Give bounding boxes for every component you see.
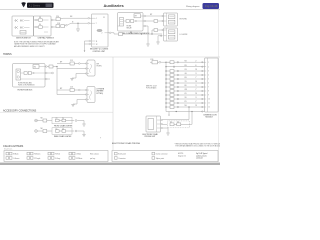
svg-text:Wiring diagram: Wiring diagram — [186, 6, 200, 8]
ladder bottom wires — [166, 107, 205, 115]
ladder row 7 — [165, 85, 204, 88]
ERP note — [174, 143, 221, 148]
ladder row 11 — [165, 101, 204, 104]
module output wire — [108, 32, 119, 34]
svg-text:P Purple: P Purple — [34, 158, 40, 160]
svg-text:C16: C16 — [70, 87, 73, 89]
svg-text:BS: BS — [185, 85, 187, 87]
ERP wire pin2 with connectors — [162, 112, 192, 128]
legend right caption — [178, 153, 208, 159]
right page border — [218, 10, 220, 162]
svg-text:C5: C5 — [56, 128, 58, 130]
svg-text:C4: C4 — [62, 118, 64, 120]
ladder row 9 — [165, 93, 204, 96]
svg-text:CENTRAL FUSEBOX: CENTRAL FUSEBOX — [38, 37, 55, 40]
ladder side note — [146, 86, 157, 90]
svg-text:R2: R2 — [34, 66, 36, 68]
svg-text:11: 11 — [196, 93, 198, 95]
ignition switch box S1 — [12, 16, 34, 36]
svg-text:CONTROL UNIT: CONTROL UNIT — [93, 51, 106, 53]
svg-text:Fig 13.48: Fig 13.48 — [205, 4, 218, 8]
door module label — [204, 114, 218, 118]
column divider — [112, 57, 114, 150]
svg-text:RS: RS — [185, 77, 187, 79]
svg-text:SS: SS — [185, 97, 187, 99]
wire from module to LO horn — [118, 29, 163, 37]
wire row2 feed — [51, 21, 92, 28]
svg-text:4: 4 — [96, 18, 97, 20]
svg-text:PS: PS — [185, 101, 187, 103]
ladder row 5 — [165, 77, 204, 80]
legend entry c1r2 — [6, 157, 19, 160]
header jaguar logo — [22, 2, 26, 7]
relay output wire top — [45, 65, 58, 68]
svg-text:R7: R7 — [135, 16, 137, 18]
svg-text:11: 11 — [96, 41, 98, 43]
horn feed wire1 — [143, 14, 163, 17]
RH horn feed wires — [57, 60, 87, 69]
svg-text:11: 11 — [196, 69, 198, 71]
LH horn feed wires — [57, 87, 87, 96]
header fig badge — [203, 3, 220, 9]
svg-text:NS: NS — [185, 105, 187, 107]
bottom page band — [0, 163, 220, 165]
svg-text:C3: C3 — [56, 118, 58, 120]
engine fusebox box F2 — [118, 13, 144, 32]
header rule — [0, 9, 220, 11]
svg-text:FUSE 23 IN FUSEBOX: FUSE 23 IN FUSEBOX — [18, 85, 35, 87]
svg-text:Fig 13.48 Typical: Fig 13.48 Typical — [196, 153, 208, 155]
svg-text:BP: BP — [60, 62, 62, 64]
svg-text:2: 2 — [102, 33, 103, 35]
RH horn label — [97, 64, 103, 68]
svg-text:Auxiliaries: Auxiliaries — [104, 3, 125, 8]
wire color labels horns — [60, 62, 62, 91]
legend entry c3r2 — [48, 157, 60, 160]
svg-text:U Blue: U Blue — [76, 154, 81, 156]
legend left box — [4, 151, 108, 162]
svg-text:C2: C2 — [177, 121, 179, 123]
ERP wire pin1 — [162, 106, 189, 119]
RH horn ground — [70, 73, 87, 81]
section divider horns — [0, 56, 220, 58]
ladder row 1 — [166, 60, 205, 63]
ERP unit box U3 — [146, 116, 162, 132]
svg-text:F8: F8 — [39, 17, 41, 19]
horn feed wire2 — [143, 20, 163, 23]
svg-text:C1: C1 — [103, 17, 105, 19]
ERP ground G3 — [162, 128, 169, 135]
svg-text:MODULE: MODULE — [206, 117, 214, 119]
horn HI box H1 — [162, 13, 178, 26]
svg-text:G Green: G Green — [13, 158, 19, 160]
relay stub bottom — [45, 78, 50, 80]
LH horn label — [97, 89, 105, 95]
svg-text:NK: NK — [41, 128, 43, 130]
svg-text:Wire colours: Wire colours — [90, 154, 99, 156]
ground G2 — [156, 36, 160, 44]
svg-text:HORN: HORN — [97, 66, 103, 68]
ladder row 8 — [165, 89, 204, 92]
accessory row1 — [35, 117, 86, 126]
svg-text:YS: YS — [185, 81, 187, 83]
wire row1 feed — [51, 16, 92, 21]
svg-text:PRICING UNIT: PRICING UNIT — [145, 136, 156, 138]
svg-text:C6: C6 — [62, 128, 64, 130]
svg-text:10: 10 — [208, 99, 210, 101]
module label — [90, 49, 109, 53]
legend entry c2r2 — [27, 157, 40, 160]
svg-text:12: 12 — [208, 107, 210, 109]
horn wire3 to ground — [143, 25, 150, 46]
relay stub mid — [45, 72, 53, 74]
horn LO box H2 — [160, 28, 177, 41]
svg-text:GS: GS — [185, 73, 187, 75]
svg-text:FITTED): FITTED) — [97, 93, 104, 95]
horn bus wire — [56, 67, 58, 95]
legend right entries — [115, 152, 169, 160]
svg-text:HORNS: HORNS — [3, 53, 12, 56]
ground G1 — [76, 23, 80, 31]
fusebox box F1 — [34, 16, 52, 36]
accessory row2 — [35, 128, 86, 137]
legend note column — [90, 154, 99, 160]
svg-text:NP: NP — [150, 14, 152, 16]
svg-text:11: 11 — [196, 105, 198, 107]
svg-text:ELECTRONIC ROAD PRICING: ELECTRONIC ROAD PRICING — [112, 142, 141, 145]
svg-text:HI HORN: HI HORN — [180, 19, 188, 21]
svg-text:C20: C20 — [56, 16, 59, 18]
svg-text:HORN FUSE BOX: HORN FUSE BOX — [18, 89, 34, 91]
svg-text:F4: F4 — [39, 24, 41, 26]
svg-text:BP: BP — [60, 88, 62, 90]
svg-text:C15: C15 — [70, 60, 73, 62]
svg-text:per key: per key — [90, 158, 95, 160]
ladder bus — [165, 62, 167, 108]
legend entry c4r1 — [69, 152, 81, 155]
ladder row 4 — [165, 73, 204, 76]
svg-text:WS: WS — [185, 89, 187, 91]
header model badge — [27, 3, 54, 8]
module bottom stubs — [84, 40, 91, 52]
svg-text:ENGINE COMPARTMENT FUSE BOX: ENGINE COMPARTMENT FUSE BOX — [119, 32, 151, 35]
svg-text:12: 12 — [96, 44, 98, 46]
ladder row 10 — [165, 97, 204, 100]
svg-text:SEE FIG 13.47: SEE FIG 13.47 — [146, 86, 157, 88]
accessory section divider — [0, 111, 113, 113]
svg-text:C1: C1 — [170, 121, 172, 123]
svg-text:N Brown: N Brown — [34, 154, 40, 156]
control module U1 — [92, 14, 109, 47]
svg-text:KS: KS — [185, 93, 187, 95]
svg-text:F30: F30 — [151, 59, 154, 61]
legend entry c1r1 — [6, 152, 19, 155]
svg-text:B Black: B Black — [13, 154, 19, 156]
ladder row 2 — [165, 65, 204, 68]
legend entry c2r1 — [27, 152, 40, 155]
svg-text:NS: NS — [185, 60, 187, 62]
svg-text:CIGAR LIGHTERS: CIGAR LIGHTERS — [3, 145, 24, 148]
svg-text:7: 7 — [96, 23, 97, 25]
svg-text:R Red: R Red — [55, 154, 60, 156]
legend entry c3r1 — [48, 152, 60, 155]
LH horn ground — [71, 99, 87, 107]
door module box U2 — [205, 58, 219, 112]
ERP unit label — [143, 133, 159, 138]
ladder row 6 — [165, 81, 204, 84]
note text — [14, 41, 59, 48]
svg-text:X.J Series: X.J Series — [29, 5, 41, 8]
legend right box — [112, 151, 218, 162]
svg-text:H33755: H33755 — [178, 153, 183, 155]
ladder row 12 — [165, 105, 204, 108]
svg-text:LO HORN: LO HORN — [180, 34, 188, 36]
svg-text:S Grey: S Grey — [55, 158, 60, 160]
RH horn box — [87, 60, 95, 76]
svg-text:US: US — [185, 69, 187, 71]
svg-text:11: 11 — [196, 81, 198, 83]
svg-text:RS: RS — [185, 65, 187, 67]
svg-text:IGNITION SWITCH: IGNITION SWITCH — [16, 38, 31, 40]
LH horn box — [87, 87, 95, 103]
svg-text:ACCESSORY CONNECTIONS: ACCESSORY CONNECTIONS — [3, 110, 37, 113]
svg-text:1998: 1998 — [46, 5, 52, 7]
horn relay box K1 — [13, 64, 46, 88]
svg-text:NK: NK — [41, 118, 43, 120]
legend entry c4r2 — [69, 157, 82, 160]
feed component top — [150, 59, 170, 64]
svg-text:C18: C18 — [57, 23, 60, 25]
ladder row 3 — [165, 69, 204, 72]
